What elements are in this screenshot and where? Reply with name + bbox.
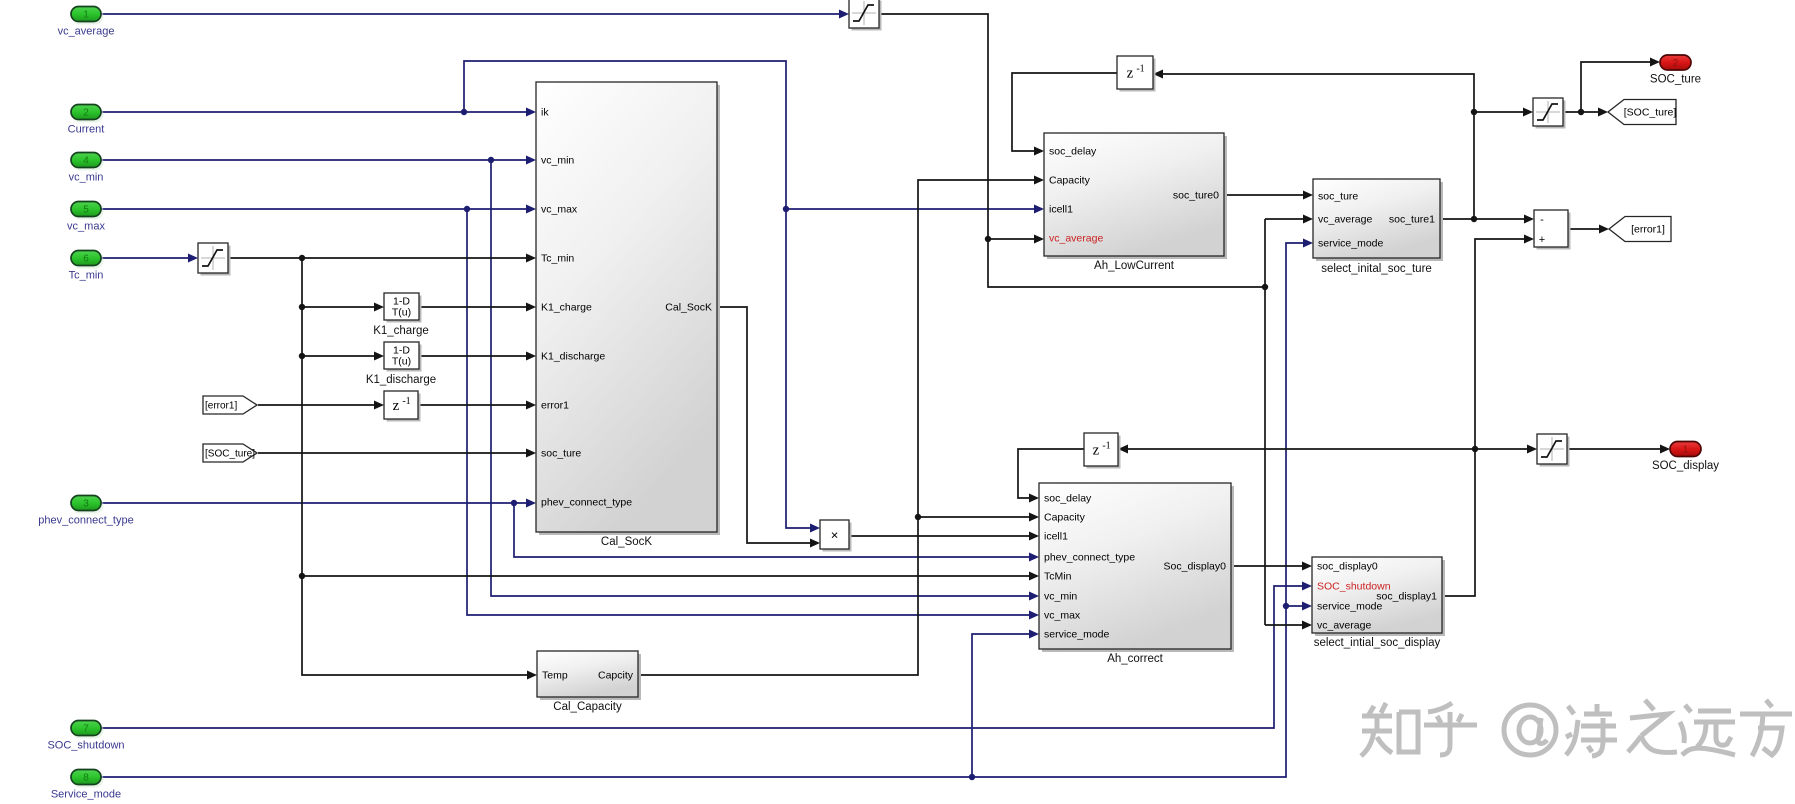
wire unit delay to Cal_SocK.error1 [418, 404, 530, 406]
input port 5 vc_max [67, 202, 105, 233]
node junction Service_mode at select_display branch [1283, 603, 1289, 609]
input port 7 SOC_shutdown [47, 721, 124, 752]
svg-text:service_mode: service_mode [1317, 601, 1383, 613]
svg-text:soc_delay: soc_delay [1044, 493, 1092, 505]
input port 3 phev_connect_type [38, 496, 133, 527]
subsystem Ah_correct [1039, 483, 1234, 665]
node junction vc_min [488, 157, 494, 163]
unit delay soc_ture loop [1117, 56, 1156, 92]
svg-text:SOC_shutdown: SOC_shutdown [47, 740, 124, 752]
svg-text:select_inital_soc_ture: select_inital_soc_ture [1321, 263, 1432, 275]
svg-text:vc_average: vc_average [1317, 620, 1371, 632]
svg-text:SOC_display: SOC_display [1652, 460, 1719, 472]
svg-text:soc_ture0: soc_ture0 [1173, 190, 1219, 202]
subsystem Cal_SocK [536, 82, 720, 548]
product block [820, 520, 852, 552]
input port 1 vc_average [58, 7, 115, 38]
wire Cal_SocK output to product [717, 307, 814, 543]
wire vc_average after saturation: to Ah_LowCurrent and both select blocks [879, 14, 1265, 287]
subsystem Ah_LowCurrent [1044, 133, 1227, 272]
svg-text:soc_delay: soc_delay [1049, 146, 1097, 158]
wire Tc_min port6 to saturation [101, 257, 194, 259]
svg-text:+: + [1539, 234, 1545, 246]
svg-text:Cal_Capacity: Cal_Capacity [553, 701, 622, 713]
wire Cal_Capacity output to Capacity inputs [638, 180, 1038, 675]
subsystem Cal_Capacity [537, 651, 641, 713]
svg-text:service_mode: service_mode [1044, 629, 1110, 641]
wire soc_ture1 net: to sum minus, delay loop and saturation [1440, 218, 1530, 220]
wire Service_mode net: port8 to Ah_correct and both select blocks [101, 243, 1307, 777]
wire Ah_correct.Soc_display0 to select_intial_soc_display [1231, 565, 1306, 567]
svg-text:soc_display1: soc_display1 [1376, 591, 1437, 603]
node junction soc_ture1 at saturation branch [1471, 109, 1477, 115]
svg-text:Cal_SocK: Cal_SocK [665, 302, 712, 314]
lookup table K1_discharge [366, 342, 436, 386]
svg-text:z: z [1093, 443, 1100, 459]
unit delay soc_display loop [1084, 433, 1121, 469]
svg-text:vc_min: vc_min [541, 155, 574, 167]
input port 8 Service_mode [51, 770, 121, 801]
node junction soc_ture1 main [1471, 216, 1477, 222]
node junction Tc at K1_discharge [299, 353, 305, 359]
output port 2 SOC_ture [1650, 55, 1701, 86]
svg-text:z: z [393, 398, 400, 414]
wire From SOC_ture tag to Cal_SocK.soc_ture [258, 452, 530, 454]
wire saturation to SOC_display port [1567, 448, 1662, 450]
svg-text:soc_ture: soc_ture [541, 448, 581, 460]
wire unit delay top to Ah_LowCurrent.soc_delay [1012, 73, 1117, 151]
svg-text:6: 6 [83, 254, 89, 265]
svg-text:[error1]: [error1] [205, 401, 237, 412]
watermark zhihu @shizhiyuanfang [1361, 700, 1792, 756]
svg-text:K1_discharge: K1_discharge [541, 351, 605, 363]
input port 6 Tc_min [69, 251, 104, 282]
svg-text:SOC_ture: SOC_ture [1650, 74, 1701, 86]
wire Ah_LowCurrent.soc_ture0 to select_inital_soc_ture [1224, 194, 1307, 196]
node junction vc_max [464, 206, 470, 212]
svg-text:vc_min: vc_min [1044, 591, 1077, 603]
wire Current net: port2 to Cal_SocK.ik, branch to icell1 and product [101, 111, 530, 113]
unit delay error1 [384, 391, 421, 422]
wire K1_discharge table to Cal_SocK [419, 355, 530, 357]
node junction Capacity at Ah_correct [915, 514, 921, 520]
svg-text:select_intial_soc_display: select_intial_soc_display [1314, 637, 1441, 649]
svg-text:Current: Current [68, 124, 105, 136]
svg-text:vc_average: vc_average [58, 26, 115, 38]
output port 1 SOC_display [1652, 442, 1719, 473]
goto tag error1 [1609, 217, 1671, 242]
svg-text:3: 3 [83, 499, 89, 510]
input port 2 Current [68, 105, 105, 136]
saturation block SOC_display [1537, 434, 1570, 467]
svg-text:Temp: Temp [542, 670, 568, 682]
wire K1_charge table to Cal_SocK [419, 306, 530, 308]
svg-text:TcMin: TcMin [1044, 571, 1072, 583]
svg-text:soc_ture: soc_ture [1318, 191, 1358, 203]
from tag error1 [203, 396, 257, 414]
wire sum output to goto error1 [1568, 228, 1601, 230]
wire product output to Ah_correct.icell1 [849, 535, 1033, 537]
node junction at SOC_ture fanout [1578, 109, 1584, 115]
svg-text:5: 5 [83, 205, 89, 216]
svg-text:vc_min: vc_min [69, 172, 104, 184]
svg-text:-1: -1 [402, 396, 410, 407]
svg-text:z: z [1127, 66, 1134, 82]
svg-text:Capacity: Capacity [1044, 512, 1086, 524]
wire unit delay bottom to Ah_correct.soc_delay [1018, 449, 1084, 498]
svg-text:vc_average: vc_average [1049, 233, 1103, 245]
svg-text:icell1: icell1 [1049, 204, 1073, 216]
svg-text:vc_max: vc_max [1044, 610, 1081, 622]
svg-text:Service_mode: Service_mode [51, 789, 121, 801]
svg-text:-: - [1540, 214, 1544, 226]
svg-text:4: 4 [83, 156, 89, 167]
svg-text:2: 2 [83, 108, 89, 119]
svg-text:[error1]: [error1] [1631, 224, 1665, 236]
svg-text:vc_max: vc_max [67, 221, 105, 233]
wire Tc_min after saturation to Cal_SocK.Tc_min with branches [228, 257, 530, 259]
wire vc_max net: port5 to Cal_SocK.vc_max, branch down to Ah_correct.vc_max [101, 208, 530, 210]
svg-text:[SOC_ture]: [SOC_ture] [205, 449, 255, 460]
svg-text:Capcity: Capcity [598, 670, 634, 682]
svg-text:K1_charge: K1_charge [373, 325, 429, 337]
wire vc_average port1 to saturation [101, 13, 845, 15]
svg-text:phev_connect_type: phev_connect_type [38, 515, 133, 527]
svg-text:soc_ture1: soc_ture1 [1389, 214, 1435, 226]
node junction soc_display1 [1472, 446, 1478, 452]
from tag SOC_ture [203, 444, 257, 462]
input port 4 vc_min [69, 153, 104, 184]
subsystem select_inital_soc_ture [1313, 179, 1443, 275]
svg-text:phev_connect_type: phev_connect_type [1044, 552, 1135, 564]
svg-text:K1_discharge: K1_discharge [366, 374, 436, 386]
lookup table K1_charge [373, 293, 429, 337]
wire From error1 tag to unit delay [258, 404, 378, 406]
svg-text:icell1: icell1 [1044, 531, 1068, 543]
node junction Tc at Ah_correct.TcMin [299, 573, 305, 579]
svg-text:Cal_SocK: Cal_SocK [601, 536, 652, 548]
svg-text:vc_average: vc_average [1318, 214, 1372, 226]
svg-text:error1: error1 [541, 400, 569, 412]
goto tag SOC_ture [1608, 100, 1676, 125]
svg-text:soc_display0: soc_display0 [1317, 561, 1378, 573]
svg-text:1: 1 [83, 10, 89, 21]
node junction Current at ik line [461, 109, 467, 115]
node junction Current at icell1 branch [783, 206, 789, 212]
svg-text:1: 1 [1683, 445, 1689, 456]
svg-text:phev_connect_type: phev_connect_type [541, 497, 632, 509]
sum block error [1534, 210, 1571, 250]
svg-text:8: 8 [83, 773, 89, 784]
saturation block SOC_ture [1533, 98, 1566, 129]
svg-text:T(u): T(u) [392, 356, 411, 368]
node junction Service_mode at Ah_correct branch [969, 774, 975, 780]
svg-text:-1: -1 [1102, 441, 1110, 452]
node junction phev_connect_type [511, 500, 517, 506]
svg-text:Tc_min: Tc_min [69, 270, 104, 282]
svg-text:-1: -1 [1136, 64, 1144, 75]
node junction vc_average at Ah_LowCurrent [985, 236, 991, 242]
svg-text:Capacity: Capacity [1049, 175, 1091, 187]
wire phev_connect_type net: port3 to Cal_SocK, branch to Ah_correct [101, 502, 530, 504]
svg-text:Ah_correct: Ah_correct [1107, 653, 1163, 665]
node junction Tc at Cal_SocK line [299, 255, 305, 261]
svg-text:K1_charge: K1_charge [541, 302, 592, 314]
svg-text:service_mode: service_mode [1318, 238, 1384, 250]
wire vc_min net: port4 to Cal_SocK.vc_min, branch down to Ah_correct.vc_min [101, 159, 530, 161]
wire saturation to SOC_ture port and goto tag [1563, 62, 1652, 112]
saturation block Tc_min [198, 243, 231, 276]
svg-text:2: 2 [1673, 58, 1679, 69]
svg-text:×: × [831, 528, 839, 543]
svg-text:Ah_LowCurrent: Ah_LowCurrent [1094, 260, 1175, 272]
svg-text:Tc_min: Tc_min [541, 253, 574, 265]
svg-text:[SOC_ture]: [SOC_ture] [1624, 107, 1677, 119]
subsystem select_intial_soc_display [1312, 557, 1445, 649]
wire soc_display1 net: to sum plus, delay loop and saturation [1442, 239, 1530, 596]
svg-text:Soc_display0: Soc_display0 [1164, 561, 1227, 573]
node junction Tc at K1_charge [299, 304, 305, 310]
svg-text:7: 7 [83, 724, 89, 735]
svg-text:vc_max: vc_max [541, 204, 578, 216]
node junction vc_average at select column [1262, 284, 1268, 290]
svg-text:ik: ik [541, 107, 549, 119]
svg-text:T(u): T(u) [392, 307, 411, 319]
wire SOC_shutdown net: port7 to select_intial_soc_display [101, 586, 1306, 728]
saturation block vc_average [849, 0, 882, 31]
